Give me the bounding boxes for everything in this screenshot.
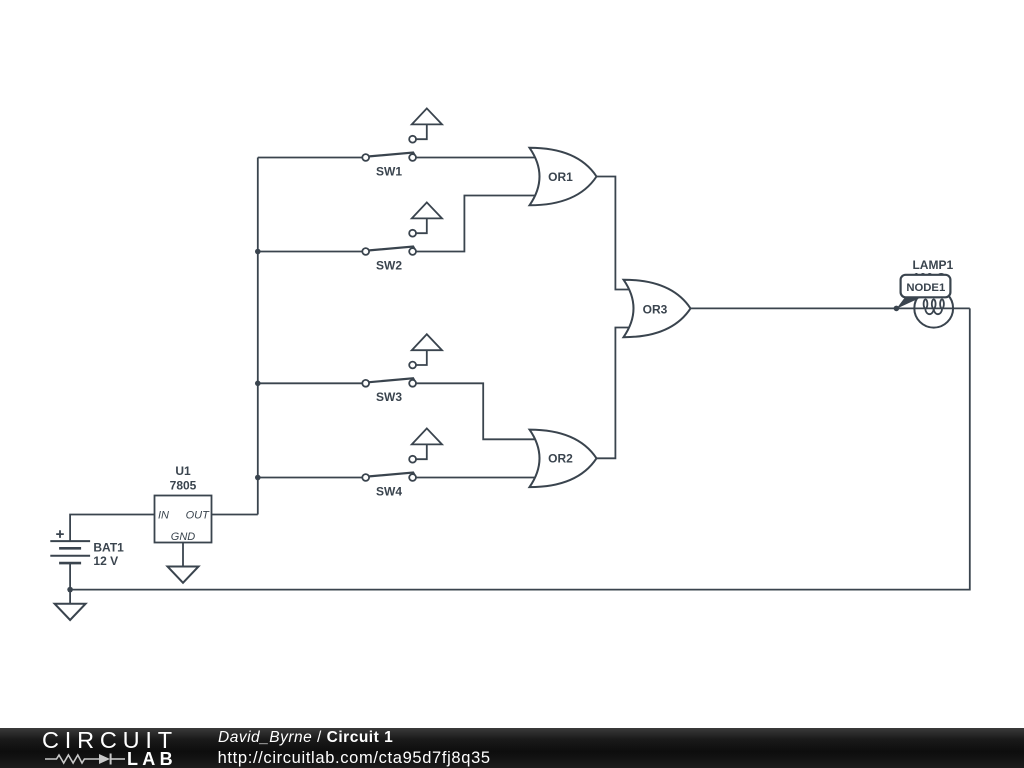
ground (U1 GND) xyxy=(168,567,199,583)
footer bar xyxy=(0,728,1024,768)
svg-text:OUT: OUT xyxy=(186,509,211,521)
wire: SW3 to OR2 input A xyxy=(416,383,537,439)
wire: U1 OUT to bus xyxy=(212,514,258,516)
wire: bus to SW1 left xyxy=(258,157,362,159)
switch SW1 xyxy=(362,108,442,178)
wire: BAT1 minus to ground xyxy=(69,563,71,604)
wire: bus to SW3 left xyxy=(258,382,362,384)
ground (battery) xyxy=(55,604,86,620)
switch SW3 xyxy=(362,334,442,404)
wire: SW4 to OR2 input B xyxy=(416,477,537,479)
junction dot bus/SW2 xyxy=(255,249,261,255)
svg-text:BAT1: BAT1 xyxy=(93,540,124,554)
wire: OR3 output to LAMP1 xyxy=(689,307,969,309)
svg-text:GND: GND xyxy=(171,531,196,543)
wire: SW2 to OR1 input B xyxy=(416,196,537,252)
circuit URL xyxy=(218,749,491,768)
switch SW4 xyxy=(362,428,442,498)
svg-text:OR2: OR2 xyxy=(548,452,573,466)
author / title text xyxy=(218,729,393,747)
svg-text:OR1: OR1 xyxy=(548,170,573,184)
battery BAT1 xyxy=(50,530,124,568)
junction dot BAT1/return xyxy=(67,587,73,593)
node flag NODE1 xyxy=(894,275,951,311)
svg-text:12 V: 12 V xyxy=(93,554,118,568)
svg-text:SW2: SW2 xyxy=(376,258,402,272)
wire: SW1 to OR1 input A xyxy=(416,157,537,159)
OR gate OR1 xyxy=(530,148,597,206)
wire: bus to SW2 left xyxy=(258,251,362,253)
CircuitLab logo wordmark xyxy=(42,727,178,754)
svg-text:SW1: SW1 xyxy=(376,164,402,178)
switch SW2 xyxy=(362,202,442,272)
svg-text:OR3: OR3 xyxy=(643,303,668,317)
svg-text:IN: IN xyxy=(158,509,169,521)
svg-text:7805: 7805 xyxy=(170,479,197,493)
junction dot bus/SW4 xyxy=(255,475,261,481)
CircuitLab logo resistor-diode mark xyxy=(0,728,220,767)
wire: 5V bus vertical xyxy=(257,158,259,515)
svg-text:U1: U1 xyxy=(175,464,191,478)
svg-text:NODE1: NODE1 xyxy=(906,282,945,294)
wire: OR1 output to OR3 input A xyxy=(597,177,632,290)
svg-text:SW4: SW4 xyxy=(376,484,402,498)
wire: BAT1 plus to U1 IN xyxy=(70,515,154,542)
wire: U1 GND to ground xyxy=(182,543,184,567)
junction dot bus/SW3 xyxy=(255,381,261,387)
wire: bus to SW4 left xyxy=(258,477,362,479)
lamp LAMP1 xyxy=(912,258,953,328)
wire: LAMP1 to bottom return xyxy=(70,308,970,589)
OR gate OR2 xyxy=(530,430,597,488)
wire: OR2 output to OR3 input B xyxy=(597,328,632,459)
svg-text:SW3: SW3 xyxy=(376,390,402,404)
OR gate OR3 xyxy=(624,280,691,338)
IC U1 7805 regulator xyxy=(155,464,212,543)
